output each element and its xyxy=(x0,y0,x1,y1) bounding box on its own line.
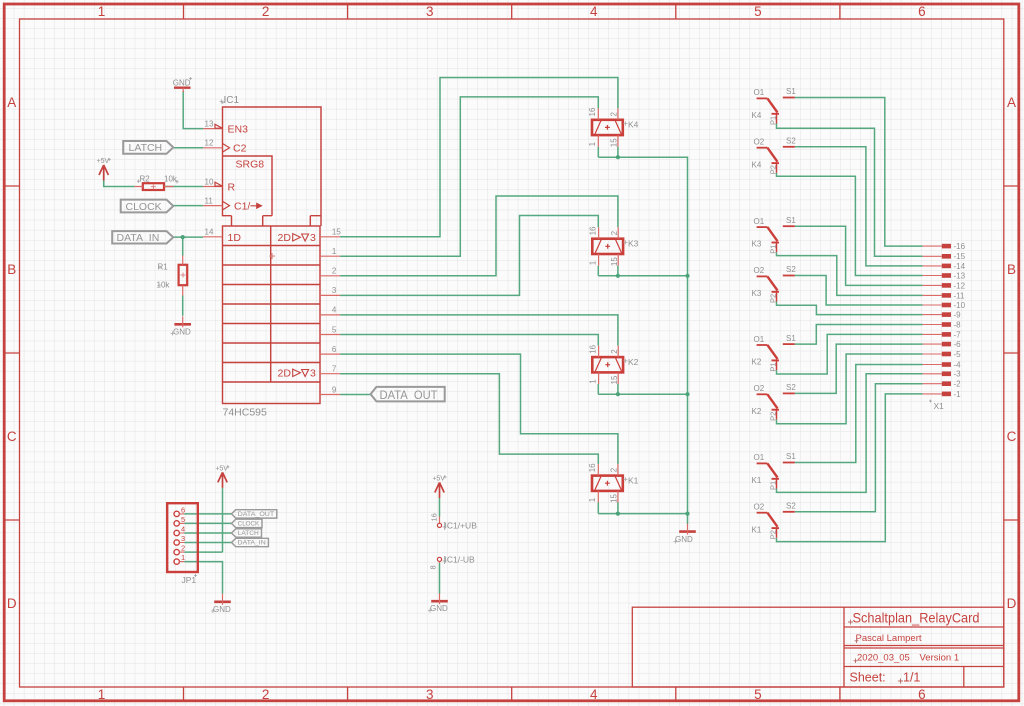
svg-text:-5: -5 xyxy=(954,350,962,359)
svg-text:K1: K1 xyxy=(752,525,762,534)
svg-text:2: 2 xyxy=(332,267,337,276)
svg-text:3: 3 xyxy=(310,368,316,380)
svg-text:-11: -11 xyxy=(954,291,966,300)
svg-text:K3: K3 xyxy=(752,240,762,249)
svg-text:4: 4 xyxy=(590,4,598,19)
svg-text:6: 6 xyxy=(181,505,185,514)
svg-text:O2: O2 xyxy=(754,266,765,275)
svg-text:GND: GND xyxy=(173,327,191,336)
svg-text:12: 12 xyxy=(205,139,214,148)
svg-text:D: D xyxy=(7,596,17,611)
svg-text:R: R xyxy=(228,181,236,193)
svg-text:DATA_OUT: DATA_OUT xyxy=(380,388,439,402)
svg-text:IC1/+UB: IC1/+UB xyxy=(445,521,478,531)
svg-text:15: 15 xyxy=(332,228,341,237)
svg-text:-9: -9 xyxy=(954,311,962,320)
svg-text:P1: P1 xyxy=(769,481,778,490)
svg-text:C1/: C1/ xyxy=(234,201,250,213)
svg-text:GND: GND xyxy=(675,535,693,544)
svg-text:10: 10 xyxy=(205,177,214,186)
svg-text:EN3: EN3 xyxy=(228,124,249,136)
svg-text:A: A xyxy=(7,95,16,110)
svg-text:C: C xyxy=(7,429,17,444)
svg-text:P2: P2 xyxy=(769,294,778,303)
svg-text:DATA_IN: DATA_IN xyxy=(238,541,266,547)
svg-text:13: 13 xyxy=(205,119,214,128)
svg-text:K4: K4 xyxy=(752,111,762,120)
svg-text:7: 7 xyxy=(332,365,337,374)
svg-text:5: 5 xyxy=(181,515,185,524)
svg-text:K2: K2 xyxy=(752,407,762,416)
svg-text:O1: O1 xyxy=(754,217,765,226)
svg-text:O1: O1 xyxy=(754,88,765,97)
svg-text:14: 14 xyxy=(205,228,214,237)
svg-text:1: 1 xyxy=(181,553,185,562)
svg-text:R2: R2 xyxy=(140,174,151,183)
svg-text:K3: K3 xyxy=(752,289,762,298)
svg-text:-12: -12 xyxy=(954,281,966,290)
svg-text:5: 5 xyxy=(754,687,762,702)
svg-text:-3: -3 xyxy=(954,370,962,379)
svg-text:B: B xyxy=(1007,262,1016,277)
svg-text:6: 6 xyxy=(332,345,337,354)
svg-text:DATA_IN: DATA_IN xyxy=(117,232,160,244)
svg-text:O2: O2 xyxy=(754,503,765,512)
svg-text:5: 5 xyxy=(332,325,337,334)
svg-text:GND: GND xyxy=(430,604,448,613)
svg-text:-16: -16 xyxy=(954,242,966,251)
svg-text:P2: P2 xyxy=(769,530,778,539)
svg-text:O1: O1 xyxy=(754,453,765,462)
svg-text:LATCH: LATCH xyxy=(129,142,163,154)
svg-text:2: 2 xyxy=(262,4,270,19)
svg-text:P2: P2 xyxy=(769,165,778,174)
svg-text:Schaltplan_RelayCard: Schaltplan_RelayCard xyxy=(853,609,980,625)
svg-text:O2: O2 xyxy=(754,138,765,147)
svg-text:Sheet:: Sheet: xyxy=(850,671,886,685)
svg-text:X1: X1 xyxy=(934,401,945,411)
svg-text:S2: S2 xyxy=(786,137,796,146)
svg-text:2D: 2D xyxy=(278,368,292,380)
svg-text:2: 2 xyxy=(181,544,185,553)
svg-text:D: D xyxy=(1007,596,1017,611)
svg-text:K1: K1 xyxy=(628,475,639,485)
svg-text:2: 2 xyxy=(262,687,270,702)
svg-text:C2: C2 xyxy=(233,143,247,155)
svg-text:S2: S2 xyxy=(786,383,796,392)
svg-text:1D: 1D xyxy=(228,232,242,244)
svg-text:Version 1: Version 1 xyxy=(920,653,960,664)
svg-text:CLOCK: CLOCK xyxy=(126,201,162,213)
svg-text:IC1/-UB: IC1/-UB xyxy=(445,555,476,565)
svg-text:9: 9 xyxy=(332,385,337,394)
svg-text:4: 4 xyxy=(332,306,337,315)
svg-text:-1: -1 xyxy=(954,390,962,399)
svg-text:SRG8: SRG8 xyxy=(236,159,265,171)
svg-text:3: 3 xyxy=(332,286,337,295)
svg-text:K4: K4 xyxy=(752,160,762,169)
svg-text:S1: S1 xyxy=(786,334,796,343)
svg-text:C: C xyxy=(1007,429,1017,444)
svg-text:-8: -8 xyxy=(954,320,962,329)
svg-text:S1: S1 xyxy=(786,216,796,225)
svg-text:O2: O2 xyxy=(754,384,765,393)
svg-text:DATA_OUT: DATA_OUT xyxy=(238,512,275,518)
svg-text:GND: GND xyxy=(213,605,231,614)
svg-text:2D: 2D xyxy=(278,232,292,244)
svg-text:1: 1 xyxy=(98,687,106,702)
svg-text:P2: P2 xyxy=(769,412,778,421)
svg-text:-2: -2 xyxy=(954,380,962,389)
svg-text:2020_03_05: 2020_03_05 xyxy=(857,653,910,664)
svg-text:K2: K2 xyxy=(752,358,762,367)
svg-text:K2: K2 xyxy=(628,357,639,367)
svg-text:K1: K1 xyxy=(752,476,762,485)
svg-text:-4: -4 xyxy=(954,360,962,369)
svg-text:R1: R1 xyxy=(158,262,169,271)
svg-text:4: 4 xyxy=(590,687,598,702)
svg-text:16: 16 xyxy=(430,513,439,521)
svg-text:-10: -10 xyxy=(954,301,966,310)
svg-text:K3: K3 xyxy=(628,238,639,248)
svg-text:11: 11 xyxy=(205,196,214,205)
svg-text:P1: P1 xyxy=(769,116,778,125)
svg-text:74HC595: 74HC595 xyxy=(223,407,268,419)
svg-text:S1: S1 xyxy=(786,87,796,96)
svg-text:LATCH: LATCH xyxy=(238,531,259,537)
svg-text:O1: O1 xyxy=(754,335,765,344)
svg-text:Pascal Lampert: Pascal Lampert xyxy=(856,633,922,644)
svg-text:8: 8 xyxy=(429,565,438,569)
svg-text:3: 3 xyxy=(426,687,434,702)
svg-text:P1: P1 xyxy=(769,245,778,254)
svg-text:S1: S1 xyxy=(786,452,796,461)
svg-text:GND: GND xyxy=(173,79,191,88)
svg-text:S2: S2 xyxy=(786,502,796,511)
svg-text:1: 1 xyxy=(98,4,106,19)
svg-text:A: A xyxy=(1007,95,1016,110)
svg-text:3: 3 xyxy=(426,4,434,19)
svg-text:3: 3 xyxy=(310,232,316,244)
svg-text:IC1: IC1 xyxy=(224,95,240,106)
svg-text:-14: -14 xyxy=(954,262,966,271)
svg-text:3: 3 xyxy=(181,534,185,543)
svg-text:CLOCK: CLOCK xyxy=(238,522,260,528)
svg-text:1: 1 xyxy=(332,247,337,256)
svg-text:JP1: JP1 xyxy=(182,575,197,585)
svg-text:-6: -6 xyxy=(954,340,962,349)
svg-text:6: 6 xyxy=(918,687,926,702)
svg-text:P1: P1 xyxy=(769,362,778,371)
svg-text:4: 4 xyxy=(181,525,185,534)
svg-text:5: 5 xyxy=(754,4,762,19)
svg-text:-13: -13 xyxy=(954,271,966,280)
svg-text:S2: S2 xyxy=(786,265,796,274)
svg-text:1/1: 1/1 xyxy=(903,671,920,685)
svg-text:K4: K4 xyxy=(628,120,639,130)
svg-text:-15: -15 xyxy=(954,252,966,261)
svg-text:6: 6 xyxy=(918,4,926,19)
svg-text:B: B xyxy=(7,262,16,277)
svg-text:-7: -7 xyxy=(954,330,962,339)
